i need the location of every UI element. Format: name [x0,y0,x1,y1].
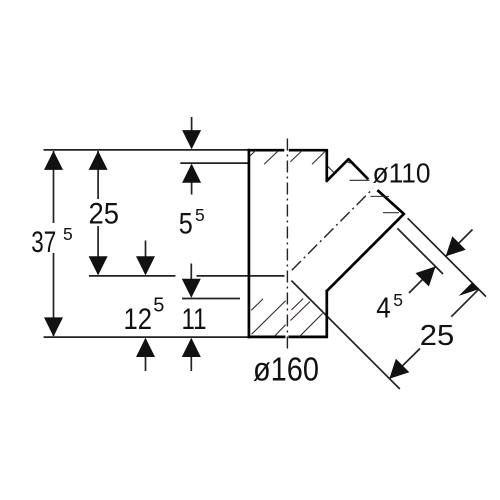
hatch t9 branch SE wall [371,195,390,197]
hatch t8 branch NW wall [350,179,370,181]
branch SE outer edge [326,213,405,292]
extension line E3 from junction [291,281,399,389]
extension line branch level right (line C right) [197,275,285,277]
dimension 25 diag line lower [389,349,420,379]
hatch ticks top band [249,151,399,337]
body outline: right edge below branch [325,290,328,338]
svg-text:37: 37 [31,226,56,259]
hatch t6 right wall [328,166,335,173]
dimension 37.5 arrow down [44,317,63,336]
svg-text:ø160: ø160 [253,351,319,388]
hatch t4 [312,151,326,164]
svg-text:25: 25 [89,198,120,231]
hatch t3 [290,151,302,162]
hatch b1 [251,299,263,311]
dimension 25 arrow down [89,256,108,275]
svg-text:11: 11 [182,303,207,336]
dimension 25 diag line upper [451,289,478,316]
dimension 37.5 arrow up [44,151,63,170]
dimension 25 diag arrow SW at E3 [389,359,409,379]
dimension 11 upper shaft [190,264,192,297]
dimension 4.5 tail lower [409,267,436,294]
dimension 12.5 arrow down at line C [136,256,155,275]
svg-text:5: 5 [153,294,164,316]
svg-text:5: 5 [393,290,403,310]
svg-text:5: 5 [179,208,193,241]
dimension 5.5 upper shaft [191,117,193,148]
extension line top face (line A) [44,149,249,151]
branch centerline [292,189,373,271]
extension line E1 branch end face [408,218,486,296]
branch end face upper segment [348,159,368,180]
dimension 11 arrow down at line E [182,279,201,298]
dimension 12.5 arrow up at line D [136,338,155,357]
svg-text:25: 25 [420,320,455,352]
svg-text:4: 4 [376,293,391,325]
extension line inner shoulder (line E) [182,298,240,300]
dimension 5.5 arrow up at line B [182,164,201,183]
body outline: bottom edge [248,336,327,339]
dimension 5.5 lower shaft [191,165,193,195]
dimension 25 diag arrow NE at E1 [459,283,479,296]
body outline: right edge above branch [325,149,328,181]
dimension 37.5 shaft upper [53,151,55,223]
branch end face lower segment [377,190,403,214]
dimension 11 arrow up at line D [182,338,201,357]
body outline: top edge [248,149,327,152]
extension line bottom face (line D) [44,336,248,338]
extension line E2 socket step [397,228,443,274]
extension line socket shoulder (line B) [180,162,248,164]
hatch c1 [291,302,311,321]
hatch c2 [299,314,323,338]
dimension 4.5 tail upper [446,230,473,257]
hatch c0 [291,299,303,311]
extension line branch level left (line C left) [89,275,176,277]
dimension 4.5 arrow NE at E2 [416,267,436,287]
hatch t7 under peak [347,162,351,164]
main pipe centerline [286,139,288,353]
hatch b3 [275,325,286,337]
dimension 12.5 upper shaft [145,241,147,275]
hatch b2 [252,301,286,335]
dimension 5.5 arrow down at line A [182,130,201,149]
dimension 12.5 lower shaft [145,339,147,371]
hatch t1 [249,151,255,157]
dimension 37.5 shaft lower [53,253,55,336]
svg-text:12: 12 [124,303,153,336]
hatch t2 [264,151,278,164]
svg-text:5: 5 [63,224,73,244]
dimension 4.5 arrow SW at E1 [446,236,466,256]
dimension 25 arrow up [89,151,108,170]
dimension 25 shaft lower [97,226,99,274]
dimension 25 shaft upper [97,151,99,199]
branch NW outer edge [326,159,349,182]
dimension 11 lower shaft [190,339,192,371]
svg-text:ø110: ø110 [373,158,431,189]
body outline: left edge [248,149,251,338]
hatch t10 branch SE wall near corner [383,212,399,214]
svg-text:5: 5 [195,205,205,225]
